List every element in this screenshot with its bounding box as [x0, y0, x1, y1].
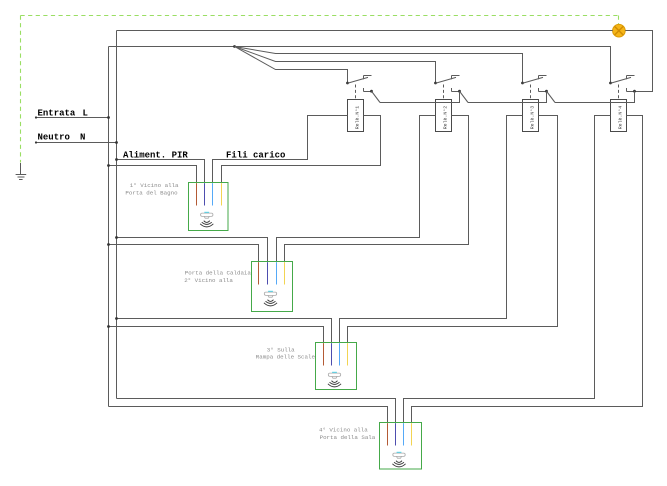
- PIR sensor 4 (green module box): [380, 423, 422, 470]
- contact K2b (lower contact of relay 2): [452, 88, 469, 103]
- svg-text:Relè.N°4: Relè.N°4: [618, 106, 624, 130]
- wire: L supply branch to PIR2 (brown lead): [109, 245, 259, 262]
- junction: PIR3 L tap: [107, 325, 110, 328]
- svg-text:Relè.N°3: Relè.N°3: [530, 106, 536, 130]
- lamp E1 (top-right): [613, 24, 626, 37]
- wire: PIR2 switched-load lead to relay K2 coil (left): [277, 116, 436, 262]
- contact K2a (upper changeover contact of relay 2): [434, 76, 459, 85]
- wire: PIR1 return lead from relay K1 coil (right): [222, 116, 381, 183]
- actuating dashed link of relay K3: [530, 85, 532, 100]
- contact K3b (lower contact of relay 3): [539, 88, 556, 103]
- contact K4a (upper changeover contact of relay 4): [609, 76, 634, 85]
- svg-text:Rampa delle Scale: Rampa delle Scale: [256, 353, 316, 360]
- actuating dashed link of relay K1: [355, 85, 357, 100]
- wire: N supply branch to PIR1 (blue lead): [117, 160, 205, 183]
- junction: PIR3 N tap: [115, 317, 118, 320]
- wire: N supply branch to PIR2 (blue lead): [117, 238, 268, 262]
- wire: Neutro N lead: [36, 142, 117, 144]
- contact K1b (lower contact of relay 1): [364, 88, 381, 103]
- wire: L bus top rail to fan-out node: [109, 46, 235, 48]
- wire: contact chain K3b to K4b: [555, 91, 635, 102]
- wire: phase fan-out branch to relay K2 contact: [235, 47, 436, 84]
- relay coil K1 ("Relè.N°1"): [348, 100, 364, 132]
- contact K1a (upper changeover contact of relay 1): [346, 76, 371, 85]
- junction: Neutro-N on N bus: [115, 141, 118, 144]
- wire: PIR3 return lead from relay K3 coil (right): [348, 116, 558, 343]
- wire: lamp to relay-4 contact (right drop): [625, 31, 652, 92]
- PIR sensor 1 (green module box): [189, 183, 229, 231]
- svg-text:Relè.N°1: Relè.N°1: [355, 106, 361, 130]
- wire: PIR1 switched-load lead to relay K1 coil (left): [213, 116, 348, 183]
- actuating dashed link of relay K2: [443, 85, 445, 100]
- wire: contact chain K2b to K3b: [468, 91, 547, 102]
- wire: PIR4 switched-load lead to relay K4 coil (left): [404, 116, 611, 423]
- svg-text:Porta del Bagno: Porta del Bagno: [125, 190, 178, 197]
- wire: PIR4 return lead from relay K4 coil (right): [412, 116, 643, 423]
- junction: PIR2 N tap: [115, 236, 118, 239]
- contact K4b (lower contact of relay 4): [627, 88, 636, 93]
- svg-text:Neutro: Neutro: [38, 133, 70, 143]
- wire: PIR3 switched-load lead to relay K3 coil (left): [340, 116, 523, 343]
- wire: Entrata L lead: [36, 117, 109, 119]
- node: L bus (phase) vertical: [108, 47, 110, 407]
- wire: phase fan-out branch to relay K3 contact: [235, 47, 523, 84]
- actuating dashed link of relay K4: [618, 85, 620, 100]
- wire: L supply branch to PIR4 (brown lead): [109, 407, 388, 423]
- wire: phase fan-out branch to relay K1 contact: [235, 47, 348, 84]
- svg-text:4° Vicino alla: 4° Vicino alla: [319, 427, 368, 434]
- node: N bus (neutral) vertical: [116, 31, 118, 399]
- svg-text:1° Vicino alla: 1° Vicino alla: [130, 182, 179, 189]
- svg-text:Porta della Sala: Porta della Sala: [320, 434, 376, 441]
- PIR sensor 3 (green module box): [316, 343, 357, 390]
- junction: PIR1 L tap: [107, 164, 110, 167]
- junction: PIR2 L tap: [107, 243, 110, 246]
- wire: phase fan-out branch to relay K4 contact: [235, 47, 611, 84]
- relay coil K2 ("Relè.N°2"): [436, 100, 452, 132]
- PIR sensor 2 (green module box): [252, 262, 293, 312]
- svg-text:Relè.N°2: Relè.N°2: [443, 106, 449, 130]
- wire: protective-earth dashed green conductor: [21, 16, 619, 163]
- relay coil K3 ("Relè.N°3"): [523, 100, 539, 132]
- junction: Entrata-L on L bus: [107, 116, 110, 119]
- wire: N supply branch to PIR4 (blue lead): [117, 399, 396, 423]
- wire: L supply branch to PIR1 (brown lead): [109, 166, 197, 183]
- wire: contact chain K1b to K2b: [380, 91, 460, 102]
- contact K3a (upper changeover contact of relay 3): [521, 76, 546, 85]
- svg-text:N: N: [80, 133, 85, 143]
- svg-text:2° Vicino alla: 2° Vicino alla: [184, 277, 233, 284]
- ground (earth) symbol: [16, 163, 27, 180]
- junction: PIR1 N tap: [115, 158, 118, 161]
- wire: N supply branch to PIR3 (blue lead): [117, 319, 332, 343]
- svg-text:Porta della Caldaia: Porta della Caldaia: [185, 269, 252, 276]
- wire: neutral top rail from N bus to lamp: [117, 30, 613, 32]
- wire: PIR2 return lead from relay K2 coil (right): [285, 116, 469, 262]
- junction: fan-out node of phase feeding relay contacts: [233, 45, 236, 48]
- relay coil K4 ("Relè.N°4"): [611, 100, 627, 132]
- wire: L supply branch to PIR3 (brown lead): [109, 327, 324, 343]
